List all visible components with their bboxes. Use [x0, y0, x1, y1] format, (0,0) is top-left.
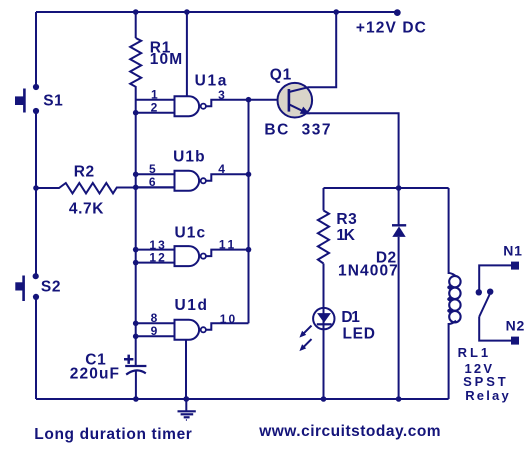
NAND gate U1c output bubble	[201, 254, 206, 259]
svg-text:Long duration timer: Long duration timer	[34, 426, 192, 443]
transistor Q1 collector stroke	[289, 12, 336, 92]
relay contact terminal N1 pad	[511, 262, 519, 270]
junction: top rail / R1 bus	[133, 9, 139, 15]
junction: C1 / bottom rail	[133, 396, 139, 402]
svg-text:RL1: RL1	[458, 345, 492, 360]
svg-text:N1: N1	[503, 243, 523, 259]
junction: top rail / Q1 collector riser	[333, 9, 339, 15]
junction: left rail / R2	[33, 185, 39, 191]
NAND gate U1a body	[175, 96, 200, 116]
svg-text:www.circuitstoday.com: www.circuitstoday.com	[258, 423, 441, 440]
wire: top +12V rail	[36, 11, 397, 13]
wire: U1a output pin 3 step to right bus	[206, 100, 249, 107]
junction: D1 branch / bottom rail	[321, 396, 327, 402]
wire: R3 branch top	[323, 188, 325, 211]
LED D1 emission arrow 1	[303, 326, 312, 335]
junction: bus / pin8	[133, 321, 139, 327]
wire: middle bus lower segment (R1 to C1)	[135, 88, 137, 365]
wire: left rail lower (S2 to bottom rail)	[35, 297, 37, 399]
transistor Q1 base bar	[288, 89, 291, 112]
wire: left rail upper (top rail to S1)	[35, 12, 37, 85]
wire: U1c output pin 11 step to right bus	[206, 250, 249, 257]
NAND gate U1b body	[175, 171, 200, 191]
NAND gate U1d body	[175, 320, 200, 340]
svg-text:4.7K: 4.7K	[69, 201, 104, 218]
wire: U1b output pin 4 step to right bus	[206, 174, 249, 181]
wire: U1d output pin 10 step to right bus	[206, 323, 249, 330]
svg-text:10: 10	[220, 312, 237, 326]
wire: U1c input pin 12	[136, 262, 175, 264]
label C1 plus sign	[124, 355, 133, 364]
wire: U1d input pin 8	[136, 322, 175, 324]
junction: top rail / U1a feed	[184, 9, 190, 15]
svg-text:U1d: U1d	[175, 297, 209, 314]
relay switch arm	[479, 295, 489, 317]
wire: gate-output bus (pins 3/4/11/10)	[248, 100, 250, 324]
wire: vertical feed from top rail into U1a	[186, 12, 188, 96]
svg-text:U1b: U1b	[173, 148, 206, 165]
wire: N1 to pivot	[479, 265, 511, 290]
wire: Q1 base	[249, 99, 290, 101]
LED D1 cathode bar	[317, 323, 332, 325]
pushbutton S2	[33, 273, 39, 279]
svg-text:220uF: 220uF	[70, 365, 120, 382]
NAND gate U1b output bubble	[201, 178, 206, 183]
wire: horizontal distribution (R3 - D2 - relay)	[324, 187, 449, 189]
svg-text:Q1: Q1	[270, 67, 292, 84]
svg-text:10M: 10M	[150, 51, 183, 68]
junction: bus / pin5	[133, 172, 139, 178]
wire: middle bus upper segment	[135, 12, 137, 38]
svg-text:S1: S1	[43, 92, 63, 109]
wire: U1b input pin 6	[136, 186, 175, 188]
transistor Q1 BC337 body circle	[278, 83, 313, 118]
NAND gate U1c body	[175, 246, 200, 266]
junction: bus / pin13	[133, 247, 139, 253]
diode D2 cathode bar	[392, 224, 406, 226]
resistor R3 1K	[318, 211, 329, 264]
svg-text:SPST: SPST	[463, 374, 509, 389]
wire: U1c input pin 13	[136, 249, 175, 251]
svg-text:Relay: Relay	[465, 388, 511, 403]
junction: ground node / bottom rail	[183, 396, 189, 402]
svg-text:1: 1	[151, 88, 158, 102]
junction: pin11	[246, 247, 252, 253]
node: +12V rail end dot	[394, 9, 401, 16]
wire: arm to N2	[479, 317, 511, 341]
capacitor C1 220uF top plate	[125, 365, 146, 367]
relay contact terminal N2 pad	[511, 337, 519, 345]
svg-text:2: 2	[151, 101, 158, 115]
wire: relay coil branch lower	[448, 323, 450, 399]
svg-text:U1c: U1c	[175, 224, 207, 241]
svg-text:3: 3	[218, 88, 225, 102]
junction: bus / pin6	[133, 185, 139, 191]
wire: U1a input pin 1	[136, 99, 175, 101]
transistor Q1 emitter stroke with arrow	[289, 104, 306, 112]
svg-text:9: 9	[151, 324, 158, 338]
wire: U1a input pin 2	[136, 112, 175, 114]
wire: U1b input pin 5	[136, 173, 175, 175]
NAND gate U1a output bubble	[201, 104, 206, 109]
relay contact pivot dot (moving)	[487, 289, 493, 295]
wire: U1d pin7 to ground	[185, 340, 187, 399]
wire: bottom ground rail	[36, 398, 449, 400]
svg-text:4: 4	[218, 162, 225, 176]
svg-text:S2: S2	[41, 279, 61, 296]
svg-text:12: 12	[149, 250, 166, 264]
wire: D2 branch upper	[398, 188, 400, 226]
relay contact pivot dot (fixed)	[476, 289, 482, 295]
LED D1 emission arrow 2	[303, 339, 312, 348]
svg-text:R3: R3	[336, 211, 357, 228]
diode D2 triangle (pointing up)	[392, 226, 405, 237]
svg-text:11: 11	[219, 238, 237, 252]
capacitor C1 bottom curved plate	[126, 370, 146, 374]
relay RL1 coil	[449, 273, 456, 277]
resistor R1 10M	[130, 38, 141, 88]
svg-text:1K: 1K	[336, 227, 355, 244]
wire: D2 branch lower	[398, 237, 400, 399]
junction: bus / pin12	[133, 260, 139, 266]
svg-text:LED: LED	[343, 326, 376, 343]
wire: U1d input pin 9	[136, 335, 175, 337]
resistor R2 4.7K	[36, 183, 175, 193]
LED D1 circle	[313, 308, 334, 329]
svg-text:N2: N2	[506, 318, 525, 334]
svg-text:BC 337: BC 337	[264, 121, 332, 138]
svg-text:R2: R2	[74, 163, 95, 180]
junction: D2 branch / bottom rail	[396, 396, 402, 402]
NAND gate U1d output bubble	[201, 327, 206, 332]
svg-text:D1: D1	[341, 309, 360, 326]
wire: left rail middle (S1 to S2)	[35, 111, 37, 276]
junction: pin3 / Q1 base	[246, 97, 252, 103]
LED D1 triangle	[317, 313, 331, 323]
junction: emitter node / D2	[396, 185, 402, 191]
wire: relay coil branch upper	[448, 188, 450, 274]
junction: pin4	[246, 172, 252, 178]
wire: R3 to D1 to bottom rail	[323, 264, 325, 400]
junction: bus / pin9	[133, 334, 139, 340]
wire: Q1 emitter to relay branch	[306, 113, 399, 188]
junction: bus / pin2	[133, 110, 139, 116]
ground symbol	[185, 399, 187, 411]
svg-text:6: 6	[149, 175, 156, 189]
pushbutton S1	[33, 84, 39, 90]
wire: C1 to bottom rail	[135, 371, 137, 400]
svg-text:+12V DC: +12V DC	[356, 20, 427, 37]
svg-text:1N4007: 1N4007	[338, 263, 399, 280]
